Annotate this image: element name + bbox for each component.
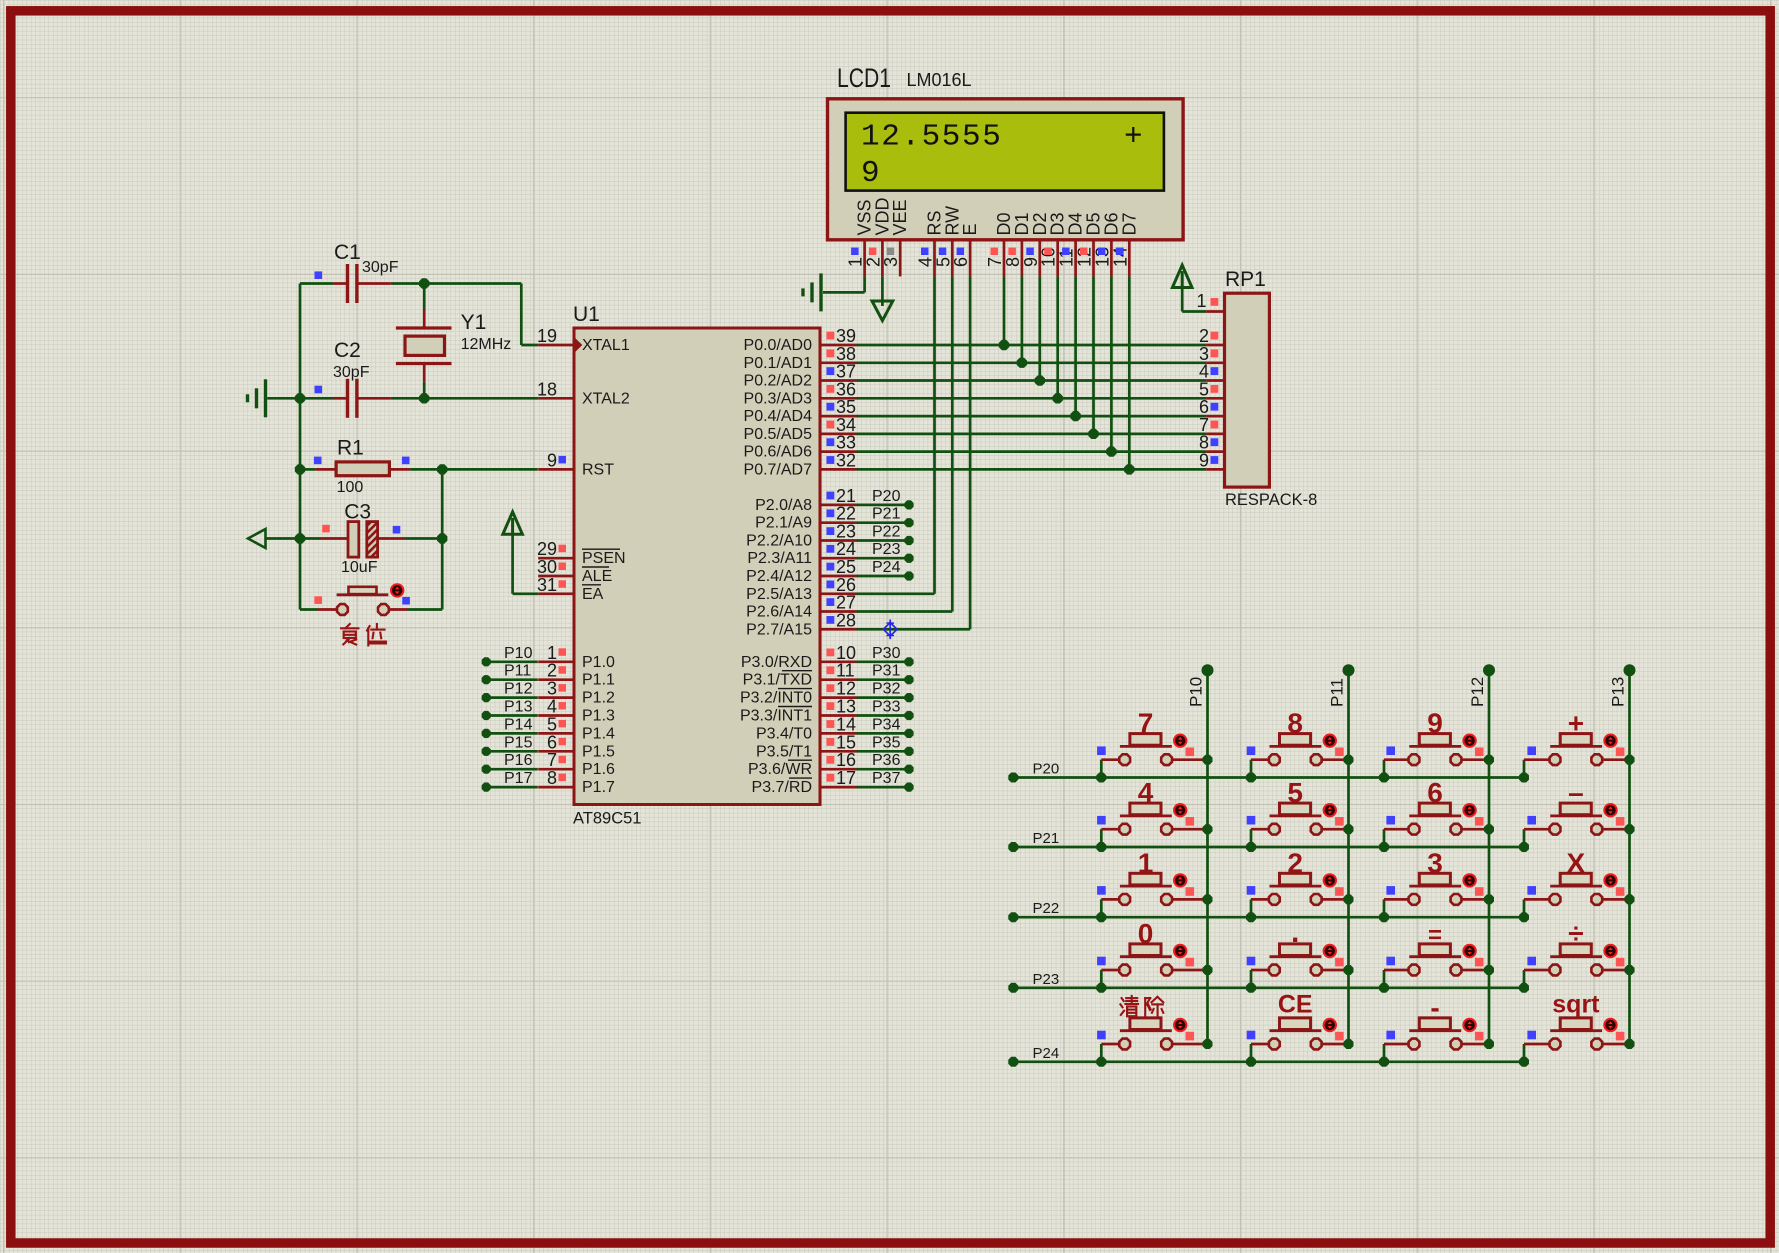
svg-text:P35: P35 (872, 734, 901, 751)
LCD1 LM016L body (828, 99, 1184, 240)
button = row4 col3 (1384, 944, 1489, 988)
junction button ÷ on row (1519, 983, 1529, 993)
junction node C3 left (295, 533, 305, 543)
svg-text:P3.3/INT1: P3.3/INT1 (740, 708, 812, 725)
button 3 row3 col3 (1384, 873, 1489, 917)
svg-text:P1.1: P1.1 (582, 672, 615, 689)
LCD pin state squares (851, 248, 1123, 256)
button + state squares (1527, 746, 1624, 756)
svg-text:P1.7: P1.7 (582, 779, 615, 796)
button 4 row2 col1 (1101, 803, 1207, 847)
chip U1 left pin names (582, 337, 630, 796)
wire P32 net (857, 693, 914, 702)
svg-text:+: + (1568, 708, 1584, 739)
svg-text:P17: P17 (504, 770, 533, 787)
junction button 9 on column (1484, 755, 1494, 765)
junction button 0 on row (1096, 983, 1106, 993)
svg-text:R1: R1 (337, 437, 364, 460)
svg-text:6: 6 (951, 257, 971, 267)
svg-text:100: 100 (337, 479, 364, 496)
svg-text:P3.0/RXD: P3.0/RXD (741, 654, 812, 671)
svg-text:P16: P16 (504, 752, 533, 769)
svg-text:6: 6 (1427, 777, 1443, 808)
svg-text:9: 9 (547, 450, 557, 470)
svg-text:P3.4/T0: P3.4/T0 (756, 725, 812, 742)
wire RST row (300, 468, 538, 471)
button 2 toggle (1324, 874, 1336, 886)
label QC (1120, 996, 1163, 1016)
chip U1 AT89C51 body (573, 303, 820, 828)
state square C1 (315, 271, 323, 279)
junction D0/P0.0 (999, 340, 1009, 350)
junction button – on column (1625, 824, 1635, 834)
svg-text:P2.0/A8: P2.0/A8 (755, 497, 812, 514)
label fuwei (reset) chinese (341, 624, 385, 646)
wire keypad row P24 (1008, 1057, 1524, 1067)
svg-text:U1: U1 (573, 303, 600, 326)
wire P15 net (482, 747, 538, 756)
wire P16 net (482, 765, 538, 774)
button 1 toggle (1174, 874, 1186, 886)
chip U1 right pin stubs (820, 345, 857, 787)
button - row5 col3 (1384, 1018, 1489, 1062)
button 6 row2 col3 (1384, 803, 1489, 847)
wire LCD D1 to P0.1 (1021, 276, 1024, 362)
left vertical wire C1-to-reset (299, 284, 302, 610)
svg-text:3: 3 (881, 257, 901, 267)
resistor R1 (315, 462, 410, 476)
svg-text:1: 1 (1138, 847, 1154, 878)
capacitor C1 (333, 264, 391, 303)
junction button 1 on row (1096, 912, 1106, 922)
capacitor C2 (333, 379, 391, 418)
junction node R1/RST column (437, 464, 447, 474)
svg-text:P34: P34 (872, 716, 901, 733)
svg-text:18: 18 (537, 379, 557, 399)
wire LCD D5 to P0.5 (1092, 276, 1095, 434)
wire P0.6 to RP1 pin 8 (857, 450, 1207, 453)
svg-text:D7: D7 (1119, 212, 1139, 235)
svg-text:P10: P10 (504, 645, 533, 662)
LCD pin numbers (846, 247, 1131, 267)
svg-text:P23: P23 (1033, 971, 1060, 988)
chip U1 right pin names (740, 337, 812, 796)
button 9 toggle (1463, 735, 1475, 747)
svg-text:P1.6: P1.6 (582, 761, 615, 778)
svg-text:P2.1/A9: P2.1/A9 (755, 515, 812, 532)
svg-text:P32: P32 (872, 681, 901, 698)
svg-text:28: 28 (836, 610, 856, 630)
svg-text:P3.1/TXD: P3.1/TXD (743, 672, 812, 689)
svg-text:Y1: Y1 (461, 311, 487, 334)
svg-text:P36: P36 (872, 752, 901, 769)
button X state squares (1527, 886, 1624, 896)
wire P0.3 to RP1 pin 5 (857, 397, 1207, 400)
junction button 2 on row (1246, 912, 1256, 922)
svg-text:P0.3/AD3: P0.3/AD3 (744, 390, 813, 407)
svg-text:P2.3/A11: P2.3/A11 (747, 550, 812, 567)
svg-text:30pF: 30pF (362, 259, 399, 276)
svg-text:P0.7/AD7: P0.7/AD7 (744, 461, 813, 478)
junction button = on row (1379, 983, 1389, 993)
button 0 row4 col1 (1101, 944, 1207, 988)
svg-text:P0.5/AD5: P0.5/AD5 (744, 426, 813, 443)
wire keypad column P12 (1483, 664, 1495, 1044)
svg-text:CE: CE (1278, 991, 1313, 1019)
junction button 2 on column (1344, 894, 1354, 904)
wire P12 net (482, 693, 538, 702)
svg-text:VEE: VEE (890, 199, 910, 235)
button 4 toggle (1174, 804, 1186, 816)
junction button + on column (1625, 755, 1635, 765)
button 5 row2 col2 (1251, 803, 1349, 847)
RP1 pin state squares (1211, 298, 1219, 464)
wire P0.2 to RP1 pin 4 (857, 379, 1207, 382)
wire P21 net (857, 518, 914, 527)
junction button . on column (1344, 965, 1354, 975)
wire P0.5 to RP1 pin 7 (857, 433, 1207, 436)
button 9 state squares (1386, 746, 1483, 756)
button - toggle (1463, 1019, 1475, 1031)
button . row4 col2 (1251, 944, 1349, 988)
chip U1 left pin stubs (538, 345, 574, 787)
wire LCD D7 to P0.7 (1128, 276, 1131, 469)
button X row3 col4 (1524, 873, 1630, 917)
button 8 toggle (1324, 735, 1336, 747)
junction button 4 on row (1096, 842, 1106, 852)
junction D3/P0.3 (1053, 393, 1063, 403)
wire P17 net (482, 783, 538, 792)
button . state squares (1247, 957, 1344, 967)
svg-text:÷: ÷ (1568, 918, 1583, 949)
wire P24 net (857, 571, 914, 580)
resistor pack RP1 RESPACK-8 body (1225, 268, 1318, 509)
button 2 row3 col2 (1251, 873, 1349, 917)
button 0 toggle (1174, 945, 1186, 957)
svg-text:XTAL1: XTAL1 (582, 337, 630, 354)
svg-text:31: 31 (537, 575, 557, 595)
svg-text:9: 9 (1427, 708, 1443, 739)
button = toggle (1463, 945, 1475, 957)
svg-text:P1.3: P1.3 (582, 708, 615, 725)
svg-text:P0.0/AD0: P0.0/AD0 (744, 337, 813, 354)
svg-text:P2.2/A10: P2.2/A10 (746, 533, 812, 550)
wire LCD D0 to P0.0 (1003, 276, 1006, 345)
button 8 row1 col2 (1251, 734, 1349, 778)
svg-text:P20: P20 (872, 488, 901, 505)
wire P0.4 to RP1 pin 6 (857, 415, 1207, 418)
LCD pin stubs (865, 240, 1130, 277)
svg-text:17: 17 (836, 768, 856, 788)
button 0 state squares (1097, 957, 1194, 967)
junction node Y1/XTAL2 wire (419, 393, 429, 403)
button QC toggle (1174, 1019, 1186, 1031)
svg-text:P2.6/A14: P2.6/A14 (746, 604, 812, 621)
svg-text:C3: C3 (344, 500, 371, 523)
junction button . on row (1246, 983, 1256, 993)
wire P10 net (482, 657, 538, 666)
wire keypad row P23 (1008, 983, 1524, 993)
capacitor C3 (electrolytic) (300, 522, 442, 558)
svg-text:P0.4/AD4: P0.4/AD4 (744, 408, 813, 425)
wire P35 net (857, 747, 914, 756)
button – row2 col4 (1524, 803, 1630, 847)
svg-text:P11: P11 (504, 663, 531, 680)
chip U1 right pin state squares (827, 332, 835, 782)
svg-text:12MHz: 12MHz (461, 336, 512, 353)
svg-text:P13: P13 (1609, 677, 1628, 707)
button qingchu(clear) row5 col1 (1101, 1018, 1207, 1062)
button X toggle (1604, 874, 1616, 886)
svg-text:P21: P21 (872, 506, 901, 523)
svg-text:8: 8 (1287, 708, 1303, 739)
crystal Y1 (396, 284, 452, 399)
svg-text:5: 5 (1287, 777, 1303, 808)
button – toggle (1604, 804, 1616, 816)
junction button 6 on row (1379, 842, 1389, 852)
junction button 7 on column (1203, 755, 1213, 765)
svg-text:C1: C1 (334, 241, 361, 264)
junction button ÷ on column (1625, 965, 1635, 975)
junction button sqrt on row (1519, 1057, 1529, 1067)
junction C1/Y1 node (419, 278, 429, 288)
wire LCD D3 to P0.3 (1056, 276, 1059, 398)
button ÷ state squares (1527, 957, 1624, 967)
svg-text:P13: P13 (504, 699, 533, 716)
junction button 3 on column (1484, 894, 1494, 904)
button 9 row1 col3 (1384, 734, 1489, 778)
junction button 1 on column (1203, 894, 1213, 904)
button sqrt state squares (1527, 1031, 1624, 1041)
wire LCD D2 to P0.2 (1038, 276, 1041, 380)
junction button + on row (1519, 773, 1529, 783)
svg-text:9: 9 (1199, 450, 1209, 470)
button 7 row1 col1 (1101, 734, 1207, 778)
junction button sqrt on column (1625, 1039, 1635, 1049)
net label P10 rotated (1187, 677, 1206, 707)
button 4 state squares (1097, 816, 1194, 826)
button CE toggle (1324, 1019, 1336, 1031)
junction D2/P0.2 (1035, 375, 1045, 385)
svg-text:P3.7/RD: P3.7/RD (752, 779, 812, 796)
button = state squares (1386, 957, 1483, 967)
LCD pin names (855, 197, 1140, 235)
svg-text:P23: P23 (872, 541, 901, 558)
svg-text:AT89C51: AT89C51 (573, 810, 641, 828)
svg-text:P20: P20 (1033, 761, 1060, 778)
svg-text:RP1: RP1 (1225, 268, 1266, 291)
wire LCD D4 to P0.4 (1074, 276, 1077, 416)
button 3 state squares (1386, 886, 1483, 896)
svg-text:=: = (1428, 922, 1442, 949)
svg-text:E: E (960, 223, 980, 235)
button 1 row3 col1 (1101, 873, 1207, 917)
svg-text:P1.5: P1.5 (582, 743, 615, 760)
button ÷ toggle (1604, 945, 1616, 957)
junction button - on column (1484, 1039, 1494, 1049)
wire LCD RS to P2.5 (857, 276, 935, 593)
RP1 pin numbers (1196, 291, 1209, 470)
junction button CE on row (1246, 1057, 1256, 1067)
junction button 5 on column (1344, 824, 1354, 834)
button CE row5 col2 (1251, 1018, 1349, 1062)
junction D5/P0.5 (1088, 429, 1098, 439)
junction node XTAL2/C2/ground (295, 393, 305, 403)
net label P12 rotated (1468, 677, 1487, 707)
junction button 5 on row (1246, 842, 1256, 852)
junction D1/P0.1 (1017, 358, 1027, 368)
svg-text:P0.1/AD1: P0.1/AD1 (744, 355, 813, 372)
wire P36 net (857, 765, 914, 774)
junction button QC on column (1203, 1039, 1213, 1049)
button – state squares (1527, 816, 1624, 826)
RP1 pin stubs 2-9 (1206, 345, 1224, 469)
button + row1 col4 (1524, 734, 1630, 778)
svg-text:10uF: 10uF (341, 559, 378, 576)
power symbol down at LCD VDD (872, 276, 893, 320)
button . toggle (1324, 945, 1336, 957)
junction button 8 on row (1246, 773, 1256, 783)
state squares C3 (322, 525, 400, 534)
svg-text:X: X (1567, 847, 1586, 878)
chip U1 clock-input arrow on XTAL1 pin (576, 338, 583, 351)
wire keypad row P21 (1008, 842, 1524, 852)
junction button CE on column (1344, 1039, 1354, 1049)
svg-text:P2.7/A15: P2.7/A15 (746, 621, 812, 638)
junction button QC on row (1096, 1057, 1106, 1067)
wire keypad column P13 (1624, 664, 1636, 1044)
power symbol above EA (503, 512, 538, 594)
wire LCD D6 to P0.6 (1110, 276, 1113, 451)
wire LCD E to P2.7 (857, 276, 971, 629)
svg-text:0: 0 (1138, 918, 1154, 949)
junction button 7 on row (1096, 773, 1106, 783)
button 5 toggle (1324, 804, 1336, 816)
svg-text:LM016L: LM016L (907, 70, 972, 90)
wire P23 net (857, 554, 914, 563)
svg-text:12.5555: 12.5555 (861, 120, 1002, 155)
junction D4/P0.4 (1070, 411, 1080, 421)
svg-text:19: 19 (537, 326, 557, 346)
svg-text:C2: C2 (334, 339, 361, 362)
wire XTAL2 row (267, 397, 538, 400)
junction button 4 on column (1203, 824, 1213, 834)
chip U1 right pin numbers (836, 326, 856, 788)
reset push button (300, 587, 442, 615)
svg-text:EA: EA (582, 586, 604, 603)
junction node R1 left on vertical (295, 464, 305, 474)
svg-text:P3.5/T1: P3.5/T1 (756, 743, 812, 760)
button 8 state squares (1247, 746, 1344, 756)
svg-text:RST: RST (582, 461, 614, 478)
origin marker on P2.7 wire (883, 620, 897, 640)
wire P37 net (857, 783, 914, 792)
svg-text:.: . (1291, 916, 1299, 949)
svg-text:4: 4 (1138, 777, 1154, 808)
svg-text:LCD1: LCD1 (837, 63, 891, 93)
svg-text:P33: P33 (872, 699, 901, 716)
junction button 9 on row (1379, 773, 1389, 783)
junction button 6 on column (1484, 824, 1494, 834)
svg-text:–: – (1568, 777, 1584, 808)
state squares R1 (314, 457, 410, 465)
right vertical wire RST-to-reset-button (441, 469, 444, 609)
button 1 state squares (1097, 886, 1194, 896)
RP1 pin 1 wire to power (1172, 265, 1224, 311)
svg-text:32: 32 (836, 450, 856, 470)
button 3 toggle (1463, 874, 1475, 886)
junction D6/P0.6 (1106, 446, 1116, 456)
wire P0.0 to RP1 pin 2 (857, 344, 1207, 347)
svg-text:P21: P21 (1033, 830, 1060, 847)
svg-text:P24: P24 (1033, 1045, 1060, 1062)
svg-text:P12: P12 (1468, 677, 1487, 707)
junction button X on column (1625, 894, 1635, 904)
svg-text:P15: P15 (504, 734, 533, 751)
net label P13 rotated (1609, 677, 1628, 707)
button 6 state squares (1386, 816, 1483, 826)
svg-text:P12: P12 (504, 681, 533, 698)
button 6 toggle (1463, 804, 1475, 816)
svg-text:P0.6/AD6: P0.6/AD6 (744, 444, 813, 461)
svg-text:P11: P11 (1328, 678, 1347, 707)
svg-text:P31: P31 (872, 663, 901, 680)
ground symbol near C2 (264, 379, 267, 417)
svg-text:sqrt: sqrt (1552, 991, 1600, 1019)
wire P20 net (857, 500, 914, 509)
svg-text:2: 2 (1287, 847, 1303, 878)
svg-text:9: 9 (861, 156, 880, 191)
svg-text:30pF: 30pF (333, 364, 370, 381)
svg-text:1: 1 (1196, 291, 1206, 311)
svg-text:P1.4: P1.4 (582, 725, 615, 742)
button - state squares (1386, 1031, 1483, 1041)
junction node C3 right (437, 533, 447, 543)
junction button = on column (1484, 965, 1494, 975)
junction button X on row (1519, 912, 1529, 922)
chip U1 left pin state squares (559, 456, 567, 781)
svg-text:P2.5/A13: P2.5/A13 (746, 586, 812, 603)
wire keypad column P10 (1202, 664, 1214, 1044)
reset button interactive toggle (391, 584, 403, 596)
junction button 8 on column (1344, 755, 1354, 765)
wire keypad column P11 (1343, 664, 1355, 1044)
wire P0.1 to RP1 pin 3 (857, 361, 1207, 364)
svg-text:P30: P30 (872, 645, 901, 662)
button sqrt row5 col4 (1524, 1018, 1630, 1062)
svg-text:P37: P37 (872, 770, 901, 787)
button 7 toggle (1174, 735, 1186, 747)
svg-text:P24: P24 (872, 559, 901, 576)
state square C2 (315, 386, 323, 394)
junction D7/P0.7 (1124, 464, 1134, 474)
wire P31 net (857, 675, 914, 684)
wire P30 net (857, 657, 914, 666)
svg-text:XTAL2: XTAL2 (582, 390, 630, 407)
wire P14 net (482, 729, 538, 738)
junction button - on row (1379, 1057, 1389, 1067)
wire P22 net (857, 536, 914, 545)
svg-text:P2.4/A12: P2.4/A12 (746, 568, 812, 585)
svg-text:P1.2: P1.2 (582, 690, 615, 707)
button CE state squares (1247, 1031, 1344, 1041)
svg-text:P1.0: P1.0 (582, 654, 615, 671)
wire P33 net (857, 711, 914, 720)
svg-text:P10: P10 (1187, 677, 1206, 707)
button + toggle (1604, 735, 1616, 747)
wire LCD RW to P2.6 (857, 276, 953, 611)
chip U1 left pin numbers (537, 326, 557, 788)
